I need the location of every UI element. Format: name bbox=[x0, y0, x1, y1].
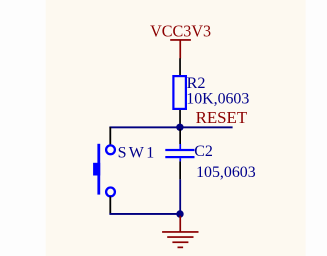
svg-text:C2: C2 bbox=[194, 143, 213, 160]
capacitor C2 plate bottom bbox=[165, 156, 194, 158]
ground bar 2 bbox=[167, 236, 193, 238]
capacitor C2 pin 2 bbox=[179, 161, 181, 179]
ground bar 1 bbox=[162, 231, 198, 233]
node junction top bbox=[176, 124, 183, 131]
svg-text:SW1: SW1 bbox=[118, 145, 155, 162]
switch SW1 button nub bbox=[93, 163, 100, 176]
wire bottom horizontal bbox=[109, 213, 180, 215]
node junction bottom bbox=[176, 210, 183, 217]
wire top horizontal (RESET net) bbox=[109, 126, 232, 128]
capacitor C2 pin 1 bbox=[179, 129, 181, 144]
svg-text:VCC3V3: VCC3V3 bbox=[150, 22, 211, 41]
switch SW1 pin 1 bbox=[109, 127, 111, 145]
power port VCC3V3 stem bbox=[179, 41, 181, 59]
wire capacitor to bottom junction bbox=[179, 179, 181, 214]
svg-text:RESET: RESET bbox=[196, 108, 248, 127]
switch SW1 actuator bar bbox=[97, 144, 100, 195]
ground bar 4 bbox=[178, 247, 184, 249]
switch SW1 contact circle bottom bbox=[106, 188, 115, 197]
power port VCC3V3 bar symbol bbox=[170, 39, 191, 41]
resistor R2 pin 1 bbox=[179, 58, 181, 75]
capacitor C2 bottom lead stub bbox=[179, 158, 181, 161]
ground bar 3 bbox=[172, 241, 188, 243]
switch SW1 pin 2 bbox=[109, 196, 111, 213]
switch SW1 contact circle top bbox=[106, 145, 115, 154]
capacitor C2 top lead stub bbox=[179, 144, 181, 150]
ground stem bbox=[179, 216, 181, 232]
svg-text:105,0603: 105,0603 bbox=[196, 164, 256, 181]
sheet background bbox=[46, 0, 306, 256]
resistor R2 pin 2 bbox=[179, 110, 181, 127]
svg-text:10K,0603: 10K,0603 bbox=[186, 91, 249, 108]
svg-text:R2: R2 bbox=[187, 74, 206, 92]
capacitor C2 plate top bbox=[165, 149, 194, 151]
resistor R2 body bbox=[173, 76, 186, 109]
